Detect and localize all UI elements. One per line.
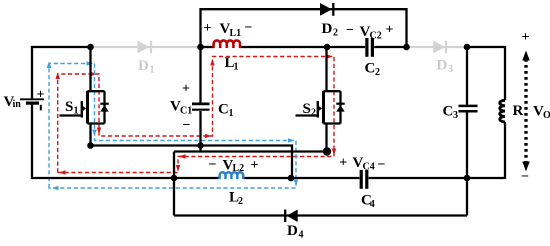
- svg-text:2: 2: [333, 28, 338, 39]
- svg-text:C: C: [218, 102, 229, 118]
- svg-text:S: S: [303, 101, 311, 117]
- svg-text:C: C: [365, 61, 376, 77]
- svg-text:D: D: [322, 21, 333, 37]
- svg-text:1: 1: [229, 108, 234, 119]
- svg-text:2: 2: [375, 67, 380, 78]
- svg-text:R: R: [513, 103, 524, 119]
- svg-text:2: 2: [238, 196, 243, 207]
- svg-text:+: +: [386, 23, 394, 38]
- svg-text:−: −: [346, 23, 354, 38]
- svg-text:−: −: [378, 158, 386, 173]
- svg-text:C: C: [443, 104, 454, 120]
- svg-text:2: 2: [311, 108, 316, 119]
- svg-text:+: +: [339, 156, 347, 171]
- svg-text:+: +: [522, 30, 530, 45]
- svg-text:L1: L1: [230, 28, 242, 39]
- svg-text:D: D: [437, 58, 448, 74]
- svg-text:+: +: [182, 82, 190, 97]
- svg-text:+: +: [251, 158, 259, 173]
- svg-text:+: +: [204, 21, 212, 36]
- svg-text:1: 1: [74, 106, 79, 117]
- svg-text:−: −: [209, 158, 217, 173]
- svg-text:in: in: [13, 99, 22, 110]
- svg-text:D: D: [138, 58, 149, 74]
- svg-text:C2: C2: [370, 31, 382, 42]
- svg-text:4: 4: [370, 199, 375, 210]
- svg-text:1: 1: [234, 62, 239, 73]
- svg-text:4: 4: [299, 230, 304, 241]
- svg-text:3: 3: [448, 64, 453, 75]
- svg-text:O: O: [543, 110, 550, 121]
- svg-text:3: 3: [453, 110, 458, 121]
- svg-text:D: D: [287, 223, 298, 239]
- svg-text:+: +: [37, 88, 45, 103]
- svg-text:C1: C1: [180, 106, 192, 117]
- svg-text:L2: L2: [233, 163, 245, 174]
- svg-text:S: S: [65, 99, 73, 115]
- svg-text:1: 1: [150, 65, 155, 76]
- svg-text:−: −: [245, 21, 253, 36]
- svg-text:−: −: [521, 170, 529, 185]
- svg-text:C4: C4: [363, 162, 375, 173]
- svg-text:−: −: [183, 118, 191, 133]
